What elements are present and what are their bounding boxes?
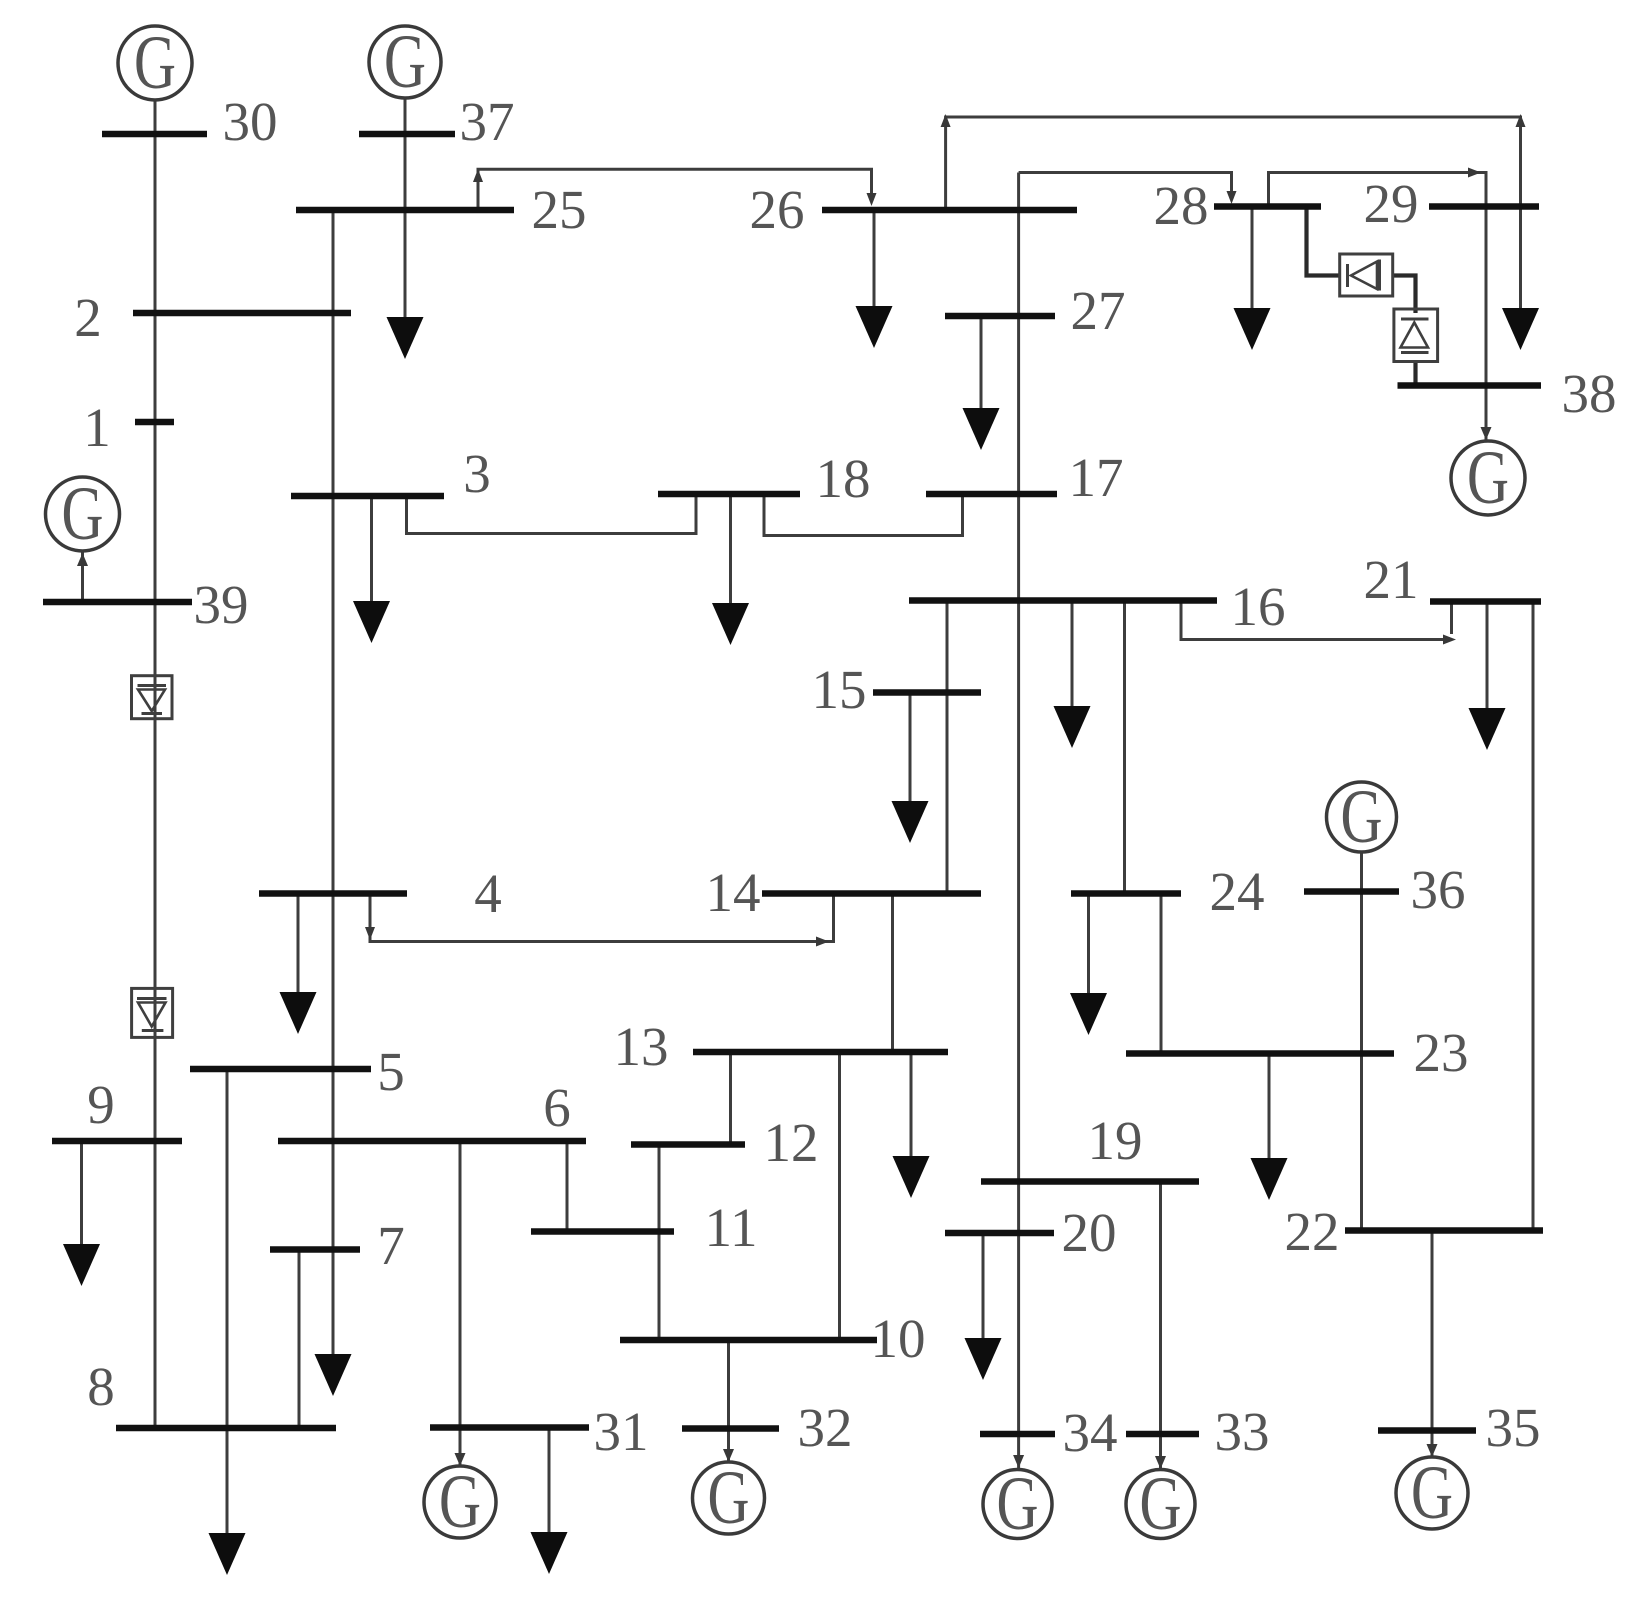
load arrow bus 9: [63, 1244, 100, 1286]
bus 17: [926, 491, 1057, 498]
bus 14: [762, 890, 981, 897]
svg-text:31: 31: [594, 1401, 649, 1462]
wire line 25-2-3-4-5-7 (second trunk): [332, 210, 335, 1356]
wire line 12-11-10: [658, 1145, 661, 1341]
svg-text:G: G: [1411, 1451, 1453, 1535]
load arrow bus 3: [353, 601, 390, 643]
svg-text:G: G: [62, 472, 104, 556]
load arrow bus 16: [1054, 706, 1091, 748]
wire load feeder bus 21: [1486, 602, 1489, 711]
load arrow bus 15: [892, 801, 929, 843]
bus 5: [190, 1066, 371, 1073]
converter T3 on line 28-38: [1340, 254, 1393, 296]
bus 22: [1345, 1227, 1543, 1234]
bus 21: [1430, 598, 1541, 605]
bus 31: [430, 1424, 589, 1431]
converter T2 on line 39-9: [132, 988, 173, 1037]
wire line 3-18: [407, 494, 697, 534]
bus 15: [873, 689, 981, 696]
svg-text:20: 20: [1062, 1202, 1117, 1263]
wire line 22-35 to G35: [1431, 1231, 1434, 1457]
load arrow bus 24: [1070, 993, 1107, 1035]
arrow into G38: [1481, 427, 1492, 440]
load arrow bus 27: [963, 408, 1000, 450]
bus 34: [980, 1431, 1055, 1438]
bus 18: [658, 491, 800, 498]
wire load feeder bus 31: [548, 1428, 551, 1538]
generator G38: [1451, 436, 1525, 520]
wire line 21-22: [1532, 602, 1535, 1231]
wire jumper 26-29 (top run): [946, 117, 1521, 313]
converter T4 on line 28-38: [1394, 309, 1438, 362]
svg-text:30: 30: [223, 91, 278, 152]
svg-text:5: 5: [377, 1041, 405, 1102]
svg-text:G: G: [1140, 1462, 1182, 1546]
wire line 13-10: [838, 1052, 841, 1340]
svg-text:21: 21: [1364, 549, 1419, 610]
svg-text:12: 12: [764, 1112, 819, 1173]
wire stub bus 21 down: [1450, 602, 1453, 635]
load arrow bus 23: [1251, 1158, 1288, 1200]
wire load feeder bus 18: [729, 494, 732, 607]
load arrow bus 28: [1234, 308, 1271, 350]
generator G30: [118, 21, 192, 105]
svg-text:34: 34: [1063, 1402, 1118, 1463]
svg-text:17: 17: [1069, 447, 1124, 508]
svg-text:16: 16: [1231, 576, 1286, 637]
arrow up at left corner: [941, 114, 951, 127]
bus 12: [631, 1141, 745, 1148]
load arrow bus 4: [280, 992, 317, 1034]
generator G35: [1396, 1451, 1468, 1535]
svg-text:38: 38: [1562, 363, 1617, 424]
wire load feeder bus 9: [80, 1141, 83, 1250]
svg-text:2: 2: [74, 287, 102, 348]
wire line G36-36-23-22: [1360, 851, 1363, 1231]
bus 4: [259, 890, 407, 897]
wire jumper 16-21: [1181, 601, 1444, 640]
load arrow bus 26: [856, 306, 893, 348]
arrow into G31: [455, 1453, 466, 1466]
bus 27: [945, 313, 1055, 320]
wire line 19-33 to G33: [1159, 1182, 1162, 1469]
wire line 10-32 to G32: [727, 1340, 730, 1461]
bus 7: [270, 1246, 360, 1253]
bus 16: [909, 597, 1217, 604]
svg-text:33: 33: [1215, 1401, 1270, 1462]
svg-text:32: 32: [798, 1397, 853, 1458]
wire jumper 4-14: [370, 894, 834, 942]
load arrow bus 21: [1469, 708, 1506, 750]
wire load feeder bus 4: [297, 894, 300, 998]
svg-text:39: 39: [194, 574, 249, 635]
svg-text:24: 24: [1210, 861, 1265, 922]
wire line 6-11: [566, 1141, 569, 1232]
svg-text:8: 8: [87, 1356, 115, 1417]
bus 9: [52, 1138, 182, 1145]
generator G37: [369, 20, 441, 104]
wire jumper 25-26: [478, 169, 872, 210]
arrow right at 14 corner: [816, 937, 829, 947]
svg-text:6: 6: [543, 1077, 571, 1138]
generator G32: [693, 1456, 765, 1540]
svg-text:G: G: [1341, 775, 1383, 859]
bus 26: [822, 207, 1077, 214]
wire load feeder bus 23: [1268, 1054, 1271, 1164]
load arrow bus 20: [965, 1338, 1002, 1380]
wire load feeder bus 26: [873, 210, 876, 311]
bus 29: [1429, 203, 1539, 210]
load arrow bus 7: [315, 1354, 352, 1396]
load arrow bus 8: [209, 1533, 246, 1575]
svg-text:35: 35: [1486, 1397, 1541, 1458]
bus 37: [359, 131, 455, 138]
svg-text:7: 7: [377, 1215, 405, 1276]
svg-text:26: 26: [750, 179, 805, 240]
generator G31: [424, 1460, 496, 1544]
wire load feeder bus 3: [370, 496, 373, 605]
wire load feeder bus 13: [910, 1052, 913, 1161]
bus 11: [531, 1228, 674, 1235]
svg-text:G: G: [439, 1460, 481, 1544]
svg-text:19: 19: [1088, 1110, 1143, 1171]
wire line 26-27-17-16-19-20-34 (long vertical): [1017, 173, 1020, 1469]
wire line 24-23: [1160, 894, 1163, 1054]
svg-text:14: 14: [706, 862, 761, 923]
load arrow bus 25: [387, 317, 424, 359]
svg-text:1: 1: [83, 397, 111, 458]
wire jumper 28-29-38: [1269, 173, 1487, 441]
wire load feeder bus 28: [1251, 207, 1254, 317]
bus 8: [116, 1425, 336, 1432]
wire load feeder bus 20: [982, 1233, 985, 1343]
bus 13: [693, 1049, 948, 1056]
wire line 16-24: [1123, 601, 1126, 894]
wire jumper 26-28: [1019, 173, 1232, 196]
arrow right on 28-29 jumper: [1468, 168, 1481, 178]
wire G39 stem: [81, 552, 84, 602]
svg-text:10: 10: [871, 1308, 926, 1369]
bus 23: [1126, 1050, 1394, 1057]
arrow into G34: [1013, 1455, 1024, 1468]
wire line 5-8 load feeder: [226, 1069, 229, 1536]
svg-text:18: 18: [816, 448, 871, 509]
wire load feeder bus 24: [1087, 894, 1090, 999]
bus 25: [296, 207, 514, 214]
bus 38: [1398, 382, 1542, 389]
svg-text:9: 9: [87, 1074, 115, 1135]
bus 3: [291, 493, 444, 500]
bus 33: [1126, 1431, 1199, 1438]
arrow into G39: [77, 553, 88, 566]
converter T1 on line 39-9: [132, 676, 173, 719]
arrow into G35: [1427, 1444, 1438, 1457]
arrow up at right corner: [1516, 114, 1526, 127]
wire line 14-13: [891, 894, 894, 1053]
wire bus 28 to converter T3: [1307, 207, 1341, 276]
svg-text:25: 25: [532, 179, 587, 240]
arrow down onto bus 26: [867, 193, 877, 206]
bus 24: [1071, 890, 1181, 897]
wire converter T4 to bus 38: [1413, 362, 1417, 386]
bus 10: [620, 1337, 877, 1344]
svg-text:G: G: [708, 1456, 750, 1540]
arrow up at 25 end: [473, 169, 483, 182]
svg-text:15: 15: [812, 659, 867, 720]
svg-text:G: G: [134, 21, 176, 105]
load arrow bus 29: [1502, 308, 1539, 350]
arrow down onto bus 28: [1227, 191, 1237, 204]
generator G39: [46, 472, 120, 556]
wire converter T3 to T4: [1393, 276, 1416, 314]
bus 1: [135, 419, 174, 426]
generator G33: [1126, 1462, 1195, 1546]
svg-text:G: G: [997, 1462, 1039, 1546]
bus 2: [133, 310, 351, 317]
svg-text:23: 23: [1414, 1022, 1469, 1083]
bus 35: [1378, 1427, 1476, 1434]
wire line 13-12: [729, 1052, 732, 1145]
bus 28: [1214, 203, 1321, 210]
bus 30: [102, 131, 207, 138]
svg-text:G: G: [1467, 436, 1509, 520]
wire load feeder bus 27: [980, 316, 983, 413]
generator G36: [1327, 775, 1397, 859]
svg-text:29: 29: [1364, 173, 1419, 234]
wire line 7-8: [298, 1250, 301, 1429]
arrow right at 21 end: [1443, 635, 1456, 645]
load arrow bus 13: [893, 1156, 930, 1198]
bus 39: [43, 599, 192, 606]
wire line 30-2-1-39-9-8 (left trunk): [154, 100, 157, 1428]
load arrow bus 31: [531, 1532, 568, 1574]
arrow down at 4 corner: [365, 927, 375, 940]
bus 19: [981, 1178, 1199, 1185]
generator G34: [983, 1462, 1052, 1546]
svg-text:28: 28: [1154, 175, 1209, 236]
svg-text:22: 22: [1285, 1201, 1340, 1262]
svg-text:13: 13: [614, 1016, 669, 1077]
bus 32: [682, 1425, 779, 1432]
svg-text:11: 11: [705, 1197, 758, 1258]
wire G37 to bus 25 with load feeder: [404, 98, 407, 317]
wire line 6-31 to G31: [459, 1141, 462, 1465]
load arrow bus 18: [712, 603, 749, 645]
bus 36: [1304, 888, 1399, 895]
wire load feeder bus 16: [1071, 601, 1074, 712]
wire load feeder bus 15: [909, 693, 912, 807]
svg-text:27: 27: [1071, 280, 1126, 341]
bus 6: [278, 1138, 586, 1145]
bus 20: [945, 1230, 1054, 1237]
svg-text:37: 37: [460, 91, 515, 152]
svg-text:G: G: [384, 20, 426, 104]
svg-text:3: 3: [463, 443, 491, 504]
wire line 18-17: [764, 494, 963, 536]
arrow into G32: [723, 1449, 734, 1462]
arrow into G33: [1155, 1456, 1166, 1469]
svg-text:4: 4: [474, 863, 502, 924]
svg-text:36: 36: [1411, 859, 1466, 920]
wire line 16-15-14: [946, 601, 949, 894]
